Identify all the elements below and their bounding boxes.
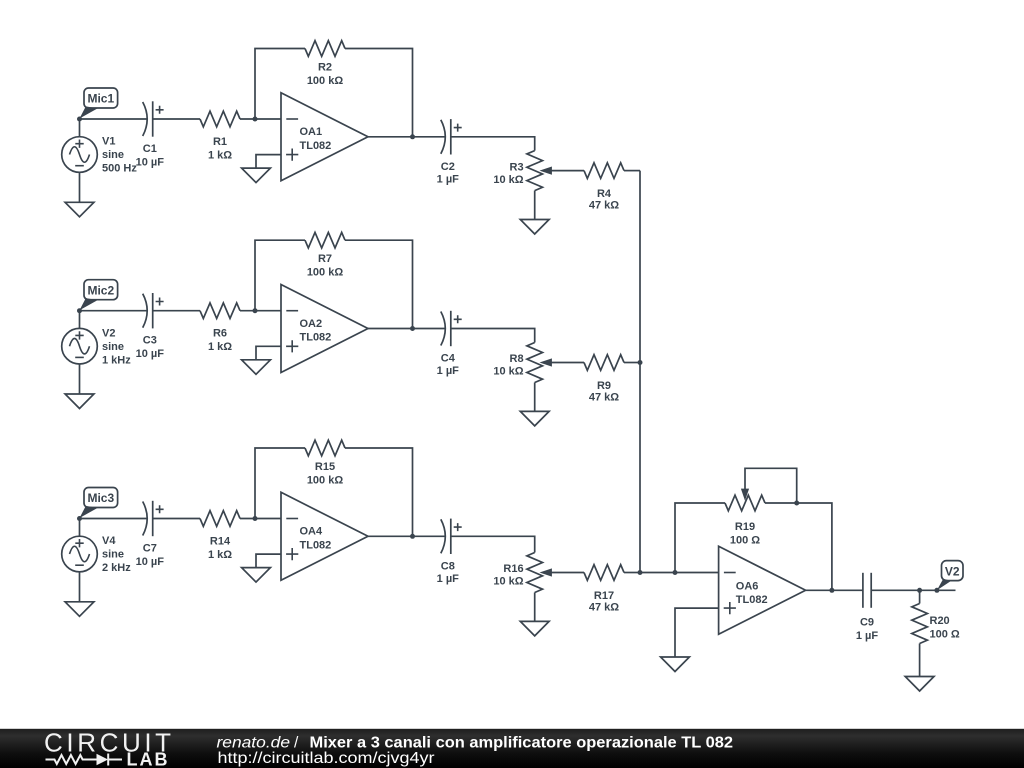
svg-text:R3: R3 xyxy=(510,161,524,173)
svg-text:47 kΩ: 47 kΩ xyxy=(589,392,619,404)
sine source V4 xyxy=(62,519,132,575)
ground under V2 xyxy=(65,364,94,409)
ground at OA4 non-inverting input xyxy=(242,568,271,583)
svg-text:R14: R14 xyxy=(210,535,231,547)
svg-text:V2: V2 xyxy=(945,564,960,578)
resistor R15 100 kOhm (feedback) xyxy=(305,440,345,486)
wire to op-amp inverting input xyxy=(240,118,281,120)
svg-text:100 kΩ: 100 kΩ xyxy=(307,75,344,87)
svg-text:C1: C1 xyxy=(143,143,157,155)
svg-text:/: / xyxy=(294,735,299,752)
svg-text:100 Ω: 100 Ω xyxy=(730,534,760,546)
sine source V1 xyxy=(62,119,138,175)
svg-text:10 µF: 10 µF xyxy=(136,156,165,168)
svg-text:OA2: OA2 xyxy=(300,318,323,330)
wire op-amp output to output cap xyxy=(368,328,445,330)
node R19 wiper tie junction xyxy=(794,501,799,506)
svg-text:47 kΩ: 47 kΩ xyxy=(589,200,619,212)
node R20 junction xyxy=(917,588,922,593)
wire feedback loop xyxy=(255,448,305,519)
svg-text:Mic2: Mic2 xyxy=(87,283,114,297)
svg-text:C4: C4 xyxy=(441,353,456,365)
svg-text:R7: R7 xyxy=(318,253,332,265)
wire OA6 feedback left side xyxy=(675,503,725,573)
svg-text:1 µF: 1 µF xyxy=(437,573,460,585)
svg-text:LAB: LAB xyxy=(127,750,170,768)
wire feedback right side to output xyxy=(765,503,832,590)
wire output cap to level pot xyxy=(451,536,535,552)
wire source node to input cap xyxy=(80,518,147,520)
svg-text:C3: C3 xyxy=(143,335,157,347)
node V2 output flag xyxy=(937,561,963,591)
svg-text:1 kΩ: 1 kΩ xyxy=(208,549,232,561)
wire OA6 non-inverting input to ground xyxy=(675,608,719,657)
ground under R20 xyxy=(905,644,934,692)
svg-text:R4: R4 xyxy=(597,188,612,200)
wire source node to input cap xyxy=(80,118,147,120)
svg-text:Mic1: Mic1 xyxy=(87,92,114,106)
node V2 flag junction xyxy=(934,588,939,593)
node feedback to output junction xyxy=(410,134,415,139)
resistor R6 1 kOhm xyxy=(200,303,240,353)
svg-text:TL082: TL082 xyxy=(300,539,332,551)
potentiometer R3 10 kOhm xyxy=(493,151,584,191)
svg-text:100 Ω: 100 Ω xyxy=(930,628,960,640)
svg-text:TL082: TL082 xyxy=(736,594,768,606)
node OA6 output feedback junction xyxy=(829,588,834,593)
svg-text:C2: C2 xyxy=(441,161,455,173)
node feedback junction xyxy=(253,117,258,122)
capacitor C3 10 uF xyxy=(136,293,165,360)
wire feedback right side down to output xyxy=(345,49,413,137)
resistor R9 47 kOhm xyxy=(584,355,624,404)
node Mic1 flag xyxy=(80,88,118,119)
svg-text:C9: C9 xyxy=(860,617,874,629)
node bus channel3 junction xyxy=(638,570,643,575)
svg-text:500 Hz: 500 Hz xyxy=(102,163,137,175)
node OA6 feedback junction xyxy=(673,570,678,575)
wire cap to input resistor xyxy=(153,518,200,520)
node Mic3 flag xyxy=(80,488,118,519)
resistor R17 47 kOhm xyxy=(584,565,624,614)
sine source V2 xyxy=(62,311,132,367)
svg-text:sine: sine xyxy=(102,149,124,161)
ground at OA6 non-inverting input xyxy=(661,657,690,672)
wire output cap to level pot xyxy=(451,329,535,343)
wire non-inverting input to ground xyxy=(256,155,281,169)
svg-text:R2: R2 xyxy=(318,61,332,73)
svg-text:47 kΩ: 47 kΩ xyxy=(589,602,619,614)
node Mic1 junction dot xyxy=(77,117,82,122)
svg-text:2 kHz: 2 kHz xyxy=(102,562,131,574)
wire to op-amp inverting input xyxy=(240,518,281,520)
svg-text:10 µF: 10 µF xyxy=(136,348,165,360)
svg-text:R9: R9 xyxy=(597,380,611,392)
wire feedback loop xyxy=(255,49,305,120)
node feedback to output junction xyxy=(410,534,415,539)
ground at OA1 non-inverting input xyxy=(242,168,271,183)
svg-text:V4: V4 xyxy=(102,535,116,547)
capacitor C8 1 uF xyxy=(437,519,462,585)
svg-text:R6: R6 xyxy=(213,328,227,340)
svg-text:R20: R20 xyxy=(930,615,950,627)
wire bus to OA6 inverting input xyxy=(640,572,719,574)
wire summing resistor to bus xyxy=(624,362,640,364)
resistor R4 47 kOhm xyxy=(584,163,624,212)
svg-text:OA1: OA1 xyxy=(300,126,323,138)
ground under R3 xyxy=(520,191,549,234)
resistor R20 100 Ohm xyxy=(912,590,960,643)
wire output cap to level pot xyxy=(451,137,535,151)
svg-text:1 µF: 1 µF xyxy=(437,365,460,377)
node Mic2 junction dot xyxy=(77,308,82,313)
capacitor C9 1 uF xyxy=(856,573,879,642)
wire summing bus vertical xyxy=(639,171,641,573)
wire summing resistor to bus xyxy=(624,170,640,172)
node feedback to output junction xyxy=(410,326,415,331)
svg-text:OA4: OA4 xyxy=(300,526,324,538)
node Mic3 junction dot xyxy=(77,516,82,521)
svg-text:sine: sine xyxy=(102,341,124,353)
op-amp OA4 TL082 xyxy=(281,492,368,580)
op-amp OA1 TL082 xyxy=(281,93,368,181)
wire to op-amp inverting input xyxy=(240,310,281,312)
svg-text:TL082: TL082 xyxy=(300,140,332,152)
resistor R1 1 kOhm xyxy=(200,111,240,161)
svg-text:1 kHz: 1 kHz xyxy=(102,354,131,366)
svg-text:1 kΩ: 1 kΩ xyxy=(208,341,232,353)
wire non-inverting input to ground xyxy=(256,346,281,360)
CircuitLab logo resistor-diode glyph xyxy=(46,754,123,766)
resistor R2 100 kOhm (feedback) xyxy=(305,41,345,87)
ground under R16 xyxy=(520,593,549,636)
svg-text:R16: R16 xyxy=(503,563,523,575)
ground under V1 xyxy=(65,172,94,217)
op-amp OA2 TL082 xyxy=(281,285,368,373)
node feedback junction xyxy=(253,308,258,313)
svg-text:1 µF: 1 µF xyxy=(437,173,460,185)
svg-text:renato.de: renato.de xyxy=(217,735,291,752)
svg-text:100 kΩ: 100 kΩ xyxy=(307,474,344,486)
wire cap to input resistor xyxy=(153,118,200,120)
svg-text:sine: sine xyxy=(102,549,124,561)
svg-text:10 kΩ: 10 kΩ xyxy=(493,576,523,588)
wire op-amp output to output cap xyxy=(368,136,445,138)
svg-text:V1: V1 xyxy=(102,136,115,148)
wire feedback right side down to output xyxy=(345,240,413,328)
capacitor C4 1 uF xyxy=(437,311,462,377)
svg-text:V2: V2 xyxy=(102,327,115,339)
svg-text:OA6: OA6 xyxy=(736,580,759,592)
potentiometer R8 10 kOhm xyxy=(493,343,584,383)
wire feedback loop xyxy=(255,240,305,311)
svg-text:100 kΩ: 100 kΩ xyxy=(307,267,344,279)
ground at OA2 non-inverting input xyxy=(242,360,271,375)
wire C9 to output node xyxy=(871,589,955,591)
capacitor C2 1 uF xyxy=(437,119,462,185)
svg-text:TL082: TL082 xyxy=(300,332,332,344)
node feedback junction xyxy=(253,516,258,521)
svg-text:C8: C8 xyxy=(441,560,455,572)
ground under R8 xyxy=(520,383,549,426)
svg-text:http://circuitlab.com/cjvg4yr: http://circuitlab.com/cjvg4yr xyxy=(218,750,436,767)
ground under V4 xyxy=(65,572,94,617)
wire source node to input cap xyxy=(80,310,147,312)
node Mic2 flag xyxy=(80,280,118,311)
svg-text:Mixer a 3 canali con amplifica: Mixer a 3 canali con amplificatore opera… xyxy=(310,735,734,752)
wire cap to input resistor xyxy=(153,310,200,312)
wire summing resistor to bus xyxy=(624,572,640,574)
svg-text:10 kΩ: 10 kΩ xyxy=(493,174,523,186)
potentiometer R16 10 kOhm xyxy=(493,553,584,593)
svg-text:10 kΩ: 10 kΩ xyxy=(493,366,523,378)
op-amp OA6 TL082 xyxy=(719,546,806,634)
svg-text:R19: R19 xyxy=(735,521,755,533)
svg-text:R17: R17 xyxy=(594,590,614,602)
svg-text:R8: R8 xyxy=(510,353,524,365)
capacitor C1 10 uF xyxy=(136,101,165,168)
potentiometer R19 100 Ohm (feedback) xyxy=(725,468,797,546)
resistor R14 1 kOhm xyxy=(200,511,240,561)
resistor R7 100 kOhm (feedback) xyxy=(305,232,345,278)
capacitor C7 10 uF xyxy=(136,501,165,568)
wire feedback right side down to output xyxy=(345,448,413,536)
svg-text:1 µF: 1 µF xyxy=(856,630,879,642)
svg-text:1 kΩ: 1 kΩ xyxy=(208,149,232,161)
wire OA6 output to cap C9 xyxy=(806,589,863,591)
wire non-inverting input to ground xyxy=(256,554,281,568)
svg-text:R15: R15 xyxy=(315,461,335,473)
wire op-amp output to output cap xyxy=(368,535,445,537)
svg-text:C7: C7 xyxy=(143,542,157,554)
svg-text:R1: R1 xyxy=(213,136,227,148)
svg-text:Mic3: Mic3 xyxy=(87,491,114,505)
node bus channel2 junction xyxy=(638,360,643,365)
svg-text:10 µF: 10 µF xyxy=(136,556,165,568)
